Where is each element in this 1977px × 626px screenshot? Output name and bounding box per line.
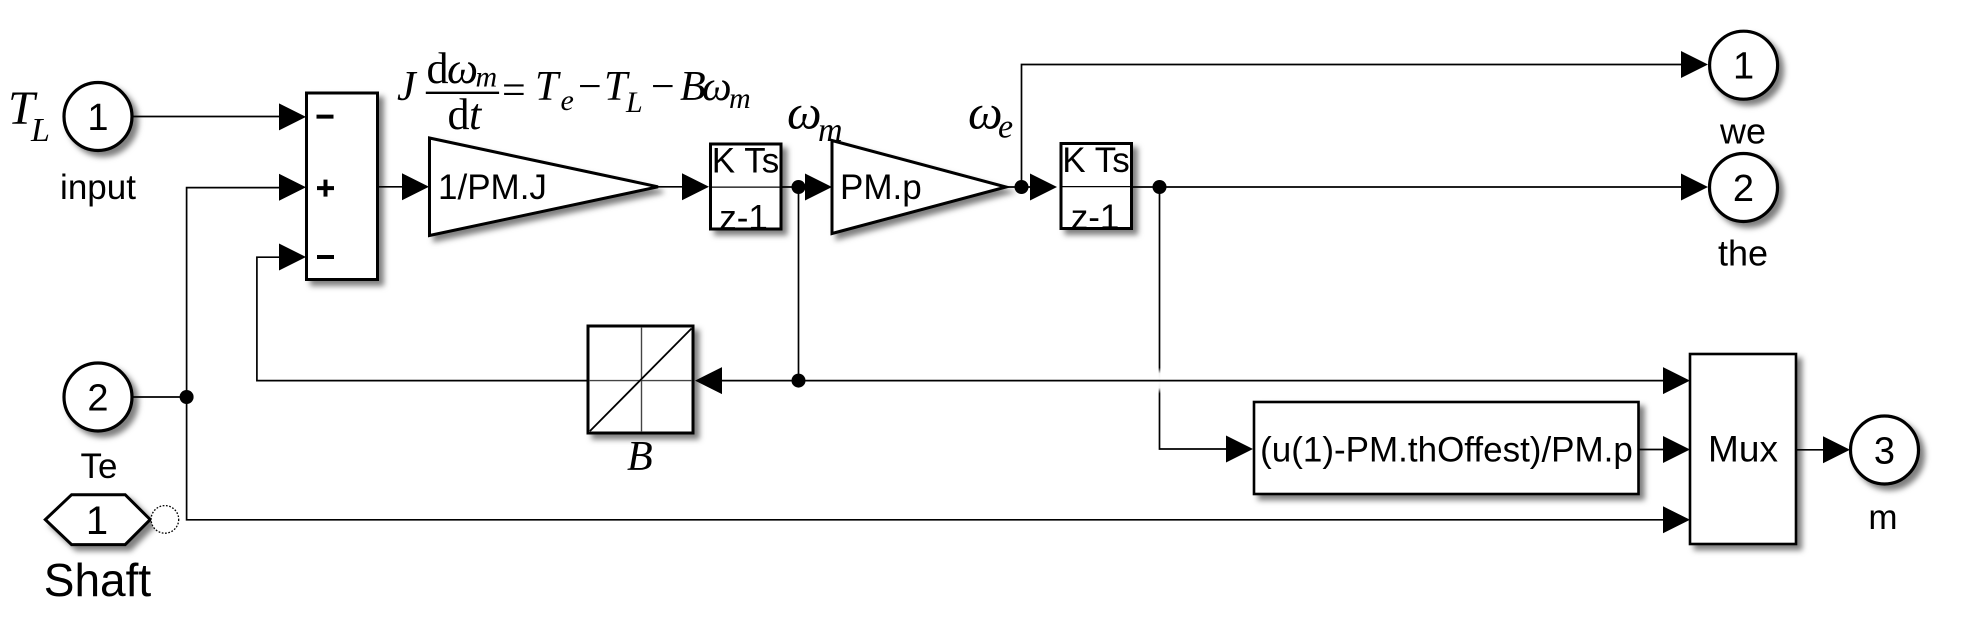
wire: gain PM.p output to integrator 2 [1006, 186, 1031, 188]
wire: gain 1/PM.J to discrete integrator 1 [658, 186, 683, 188]
arrowhead into gain PM.p [805, 174, 832, 201]
arrowhead into integrator 2 [1030, 174, 1057, 201]
wire: B feedback riser to sum - input [257, 257, 588, 380]
B block axis lines [641, 327, 643, 432]
arrowhead into sum input 2 [279, 174, 306, 201]
wire: Te/Shaft line to Mux input 3 [187, 397, 1664, 520]
svg-text:1: 1 [86, 499, 108, 543]
wire: offset block output to Mux input 2 [1639, 449, 1665, 451]
svg-text:3: 3 [1874, 431, 1895, 473]
arrowhead into gain 1/PM.J [402, 173, 429, 200]
svg-text:1: 1 [1733, 46, 1754, 88]
svg-text:K Ts: K Ts [1062, 141, 1129, 180]
svg-text:Te: Te [81, 447, 118, 486]
svg-text:−: − [578, 64, 602, 110]
svg-text:t: t [469, 90, 483, 139]
discrete integrator block 2 (K Ts / z-1) [1061, 144, 1132, 229]
output port 2 circle [1710, 154, 1778, 222]
svg-text:m: m [1868, 498, 1897, 537]
discrete integrator block 1 (K Ts / z-1) [711, 144, 782, 229]
wire: wm feedback drop [798, 187, 800, 381]
arrowhead into offset block [1226, 436, 1253, 463]
svg-text:m: m [729, 82, 751, 115]
offset block (u(1)-PM.thOffest)/PM.p [1254, 402, 1639, 494]
wire: theta branch down to offset block [1160, 187, 1227, 449]
arrowhead into sum input 3 [279, 244, 306, 271]
wire: we branch up to output 1 [1022, 65, 1682, 188]
svg-text:T: T [535, 64, 561, 110]
svg-text:PM.p: PM.p [840, 168, 922, 207]
svg-text:d: d [427, 44, 449, 93]
sum sign minus 2 [317, 255, 334, 259]
B block (friction lookup) [588, 326, 693, 433]
arrowhead into Mux input 2 [1663, 436, 1690, 463]
wire: sum output to gain 1/PM.J [378, 186, 404, 188]
svg-text:e: e [998, 109, 1013, 146]
svg-text:ω: ω [702, 64, 732, 110]
svg-text:ω: ω [787, 85, 822, 140]
arrowhead into output port 3 [1823, 436, 1850, 463]
connection port hexagon Shaft [45, 495, 150, 545]
svg-text:(u(1)-PM.thOffest)/PM.p: (u(1)-PM.thOffest)/PM.p [1260, 431, 1633, 470]
svg-text:e: e [561, 84, 574, 117]
wire: integrator 1 output to gain PM.p [781, 186, 806, 188]
svg-text:ω: ω [447, 44, 478, 93]
junction dot wm feedback [792, 374, 806, 388]
svg-text:2: 2 [1733, 168, 1754, 210]
svg-text:=: = [502, 68, 526, 114]
svg-text:−: − [651, 64, 675, 110]
arrowhead into integrator 1 [682, 173, 709, 200]
junction dot node we [1015, 180, 1029, 194]
arrowhead into output port 1 [1681, 51, 1708, 78]
input port 1 circle [64, 83, 132, 151]
wire crossing fade at (1159.5,380) [1147, 368, 1173, 394]
arrowhead into output port 2 [1681, 174, 1708, 201]
wire: Te vertical riser to sum + input [134, 188, 280, 397]
output port 3 circle [1851, 416, 1919, 484]
junction dot Te node [180, 390, 194, 404]
junction dot node theta [1153, 180, 1167, 194]
sum block [307, 93, 378, 280]
svg-text:J: J [397, 64, 418, 110]
B block diagonal [590, 329, 692, 432]
input port 2 circle (Te) [64, 363, 132, 431]
output port 1 circle [1710, 31, 1778, 99]
svg-text:2: 2 [87, 378, 108, 420]
label omega m [787, 85, 843, 150]
wire: input1 to sum [132, 116, 281, 118]
svg-text:z-1: z-1 [719, 199, 768, 238]
unconnected port circle [151, 506, 179, 534]
junction dot node wm [792, 180, 806, 194]
svg-text:m: m [476, 61, 498, 94]
sum sign minus 1 [317, 115, 334, 119]
svg-text:K Ts: K Ts [712, 142, 779, 181]
svg-text:B: B [627, 434, 653, 480]
gain block 1/PM.J [430, 138, 659, 236]
gain block PM.p [832, 141, 1006, 234]
wire: integrator 2 output to output port 2 [1131, 186, 1681, 188]
arrowhead into Mux input 3 [1663, 506, 1690, 533]
arrowhead into sum input 1 [279, 103, 306, 130]
sum sign plus [317, 186, 334, 190]
equation fraction bar [426, 92, 499, 94]
svg-text:1: 1 [87, 97, 108, 139]
svg-text:L: L [30, 112, 50, 149]
svg-text:Mux: Mux [1708, 429, 1778, 470]
svg-text:L: L [625, 86, 643, 119]
arrowhead into B block (pointing left) [695, 367, 722, 394]
svg-text:z-1: z-1 [1071, 198, 1120, 237]
equation J dwm/dt = Te - TL - Bwm [397, 44, 751, 139]
wire: Mux output to output port 3 [1796, 449, 1823, 451]
svg-text:input: input [60, 168, 136, 207]
svg-text:d: d [448, 90, 470, 139]
arrowhead into Mux input 1 [1663, 367, 1690, 394]
Mux block [1690, 354, 1796, 544]
svg-text:1/PM.J: 1/PM.J [438, 168, 547, 207]
svg-text:we: we [1719, 111, 1766, 152]
svg-text:m: m [818, 112, 843, 149]
svg-text:the: the [1718, 233, 1768, 274]
label omega e [968, 85, 1013, 146]
wire: wm feedback horizontal to Mux input 1 [722, 380, 1664, 382]
svg-text:Shaft: Shaft [44, 554, 152, 606]
